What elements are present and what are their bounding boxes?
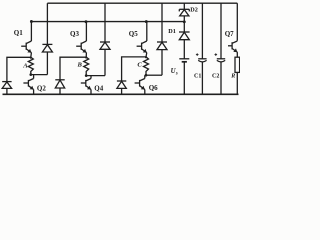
node collector junction leg 2 xyxy=(85,20,88,23)
svg-text:Q1: Q1 xyxy=(14,29,23,37)
wire recovery diode column leg 1 xyxy=(46,3,48,74)
wire top recovery bus xyxy=(47,2,237,4)
svg-text:C1: C1 xyxy=(194,73,201,79)
transistor Q1 xyxy=(21,41,31,53)
label C2 plus sign xyxy=(215,53,218,56)
node collector junction leg 1 xyxy=(30,20,33,23)
label phase C xyxy=(137,62,142,69)
wire collector of Q3 leg 2 xyxy=(85,22,87,41)
svg-text:Q7: Q7 xyxy=(225,30,234,38)
wire D1 cathode to bus xyxy=(183,22,185,32)
inductor phase winding C xyxy=(144,57,149,75)
transistor Q6 xyxy=(135,75,145,94)
label C1 xyxy=(194,73,201,79)
svg-text:R: R xyxy=(230,73,235,79)
svg-text:Q6: Q6 xyxy=(149,84,158,92)
wire phase-bottom to recovery diode leg 2 xyxy=(86,75,105,77)
node phase-top node leg 2 xyxy=(85,56,87,58)
svg-text:Q2: Q2 xyxy=(37,85,46,93)
svg-text:s: s xyxy=(175,72,178,77)
wire collector of Q1 leg 1 xyxy=(30,22,32,41)
wire phase-bottom to recovery diode leg 3 xyxy=(146,74,162,76)
wire source negative to bottom bus xyxy=(183,62,185,95)
svg-text:B: B xyxy=(77,61,83,68)
wire C2 top xyxy=(220,3,222,59)
node supply bus / D1 D2 junction xyxy=(183,20,186,23)
label R xyxy=(230,73,235,79)
label C2 xyxy=(212,73,219,79)
diode D1 xyxy=(179,32,190,40)
wire phase-top to lower freewheel diode leg 2 xyxy=(60,57,86,80)
capacitor C2 xyxy=(217,59,225,62)
label C1 plus sign xyxy=(196,53,199,56)
wire D2 cathode to top bus xyxy=(183,3,185,9)
resistor R xyxy=(235,57,240,72)
diode freewheel lower leg 3 xyxy=(117,81,126,94)
label Q2 xyxy=(37,85,46,93)
label Q3 xyxy=(70,30,79,38)
diode recovery upper leg 2 xyxy=(100,42,110,49)
label Q4 xyxy=(94,84,103,92)
wire collector of Q5 leg 3 xyxy=(146,22,148,41)
node phase-top node leg 1 xyxy=(30,57,32,59)
wire C1 top xyxy=(201,3,203,59)
wire emitter of Q1 to winding node xyxy=(30,53,33,58)
battery source Us xyxy=(179,59,189,62)
transistor Q4 xyxy=(81,76,91,95)
wire D1 anode to source xyxy=(183,40,185,59)
svg-text:D1: D1 xyxy=(168,28,176,35)
svg-text:C2: C2 xyxy=(212,73,219,79)
svg-text:Q4: Q4 xyxy=(94,84,103,92)
wire phase-bottom to recovery diode leg 1 xyxy=(31,74,48,76)
label Q6 xyxy=(149,84,158,92)
inductor phase winding B xyxy=(84,57,89,75)
transistor Q2 xyxy=(23,75,33,95)
wire Q7 emitter to R xyxy=(236,52,238,57)
transistor Q5 xyxy=(137,41,147,53)
label phase B xyxy=(77,61,83,68)
transistor Q3 xyxy=(76,41,86,53)
diode recovery upper leg 3 xyxy=(157,42,167,50)
svg-text:C: C xyxy=(137,62,142,69)
capacitor C1 xyxy=(198,59,206,62)
wire emitter of Q5 to winding node xyxy=(145,53,148,57)
label Us xyxy=(171,68,178,77)
diode freewheel lower leg 1 xyxy=(2,82,11,95)
wire emitter of Q3 to winding node xyxy=(85,53,87,58)
wire C1 bottom xyxy=(201,62,203,94)
wire phase-top to lower freewheel diode leg 1 xyxy=(7,57,31,81)
label phase A xyxy=(22,62,28,69)
node phase-top node leg 3 xyxy=(145,56,147,58)
diode D2 xyxy=(179,9,189,21)
label Q7 xyxy=(225,30,234,38)
node phase-bottom node leg 2 xyxy=(85,74,88,77)
svg-text:Q3: Q3 xyxy=(70,30,79,38)
wire R to bottom bus xyxy=(236,72,238,94)
diode recovery upper leg 1 xyxy=(42,44,52,52)
transistor Q7 xyxy=(228,41,237,52)
label D1 xyxy=(168,28,176,35)
wire recovery diode column leg 2 xyxy=(104,3,106,75)
label Q5 xyxy=(129,30,138,38)
wire Q7 collector from top bus xyxy=(236,3,238,41)
wire collector supply bus xyxy=(31,21,184,23)
label Q1 xyxy=(14,29,23,37)
diode freewheel lower leg 2 xyxy=(55,80,64,95)
wire recovery diode column leg 3 xyxy=(161,3,163,75)
inductor phase winding A xyxy=(28,57,33,74)
wire phase-top to lower freewheel diode leg 3 xyxy=(122,57,146,81)
wire C2 bottom xyxy=(220,62,222,94)
svg-text:A: A xyxy=(22,62,28,69)
svg-text:D2: D2 xyxy=(190,6,198,13)
node phase-bottom node leg 1 xyxy=(29,73,32,76)
node phase-bottom node leg 3 xyxy=(145,74,148,77)
svg-text:Q5: Q5 xyxy=(129,30,138,38)
wire bottom negative bus xyxy=(3,93,239,95)
label D2 xyxy=(190,6,198,13)
node collector junction leg 3 xyxy=(145,20,148,23)
